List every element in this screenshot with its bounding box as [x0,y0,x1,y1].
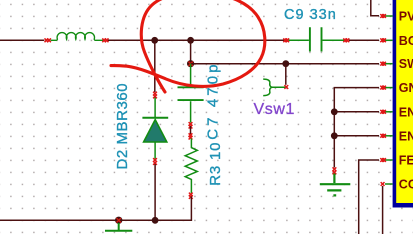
IC pin labels [399,10,413,192]
wire diode to bottom rail [154,164,156,220]
node junction J2 [187,37,194,44]
node junction on SW rail [282,60,289,67]
wire between C7 and R3 [190,126,192,136]
wire J2 down to J3 [190,40,192,63]
svg-text:D2 MBR360: D2 MBR360 [114,83,131,170]
IC U1 body [393,0,413,208]
svg-text:C7 470p: C7 470p [205,61,222,139]
node junction J1 [151,37,158,44]
IC pin-end marks [380,14,386,186]
pin-end mark probe [284,85,288,89]
wire EN1 [334,111,379,113]
wire GN rail [334,88,379,168]
svg-text:ENB: ENB [399,105,413,119]
ground GND1 [320,174,351,196]
probe symbol Vsw1 [263,79,285,96]
IC pin stubs [385,16,393,184]
capacitor C9 [288,39,344,41]
diode D2 pin-end marks top [153,92,157,96]
svg-text:GND: GND [399,81,413,95]
pin-end marks ground G1 [333,167,337,171]
pin-end marks inductor left [45,38,49,42]
svg-text:BOO: BOO [399,34,413,48]
wire top rail mid segment [107,39,284,41]
diode D2 [154,98,156,118]
inductor L1 [51,33,103,41]
wire top rail left segment [0,39,44,41]
wire PV from top edge [371,0,379,16]
wire EN2 [334,135,379,137]
pin-end marks C9 right [343,38,347,42]
diode D2 pin-end marks bottom [153,158,157,162]
pin-end marks C7 bottom [189,122,193,126]
pin-end marks R3 top [189,133,193,137]
pin-end marks inductor right [102,38,106,42]
node junction bottom ground with cross [115,217,122,224]
node junction J3 with cross [187,60,194,67]
node junction EN2 [331,132,338,139]
pin-end marks C9 left [283,38,287,42]
bottom rail wire [0,196,191,220]
resistor R3 [185,139,197,194]
wire top rail right segment to BO pin [349,39,379,41]
svg-text:FE: FE [399,154,413,168]
ground GND2 bottom [105,223,132,231]
node junction bottom diode [152,217,159,224]
svg-text:C9 33n: C9 33n [284,7,337,23]
wire FE [359,160,379,234]
svg-text:ENB: ENB [399,129,413,143]
node junction EN1 [331,108,338,115]
pin-end marks R3 bottom [189,193,193,197]
annotation red circle [111,0,265,92]
svg-text:R3 10: R3 10 [207,142,224,186]
wire CO down [382,186,384,234]
capacitor C7 [190,64,192,123]
wire J1 down to diode [154,40,156,92]
svg-text:Vsw1: Vsw1 [254,101,296,118]
wire SW rail [191,63,379,65]
svg-text:COM: COM [399,178,413,192]
svg-text:SW: SW [399,57,413,71]
svg-text:PVC: PVC [399,10,413,24]
wire stub down to probe [285,64,287,85]
